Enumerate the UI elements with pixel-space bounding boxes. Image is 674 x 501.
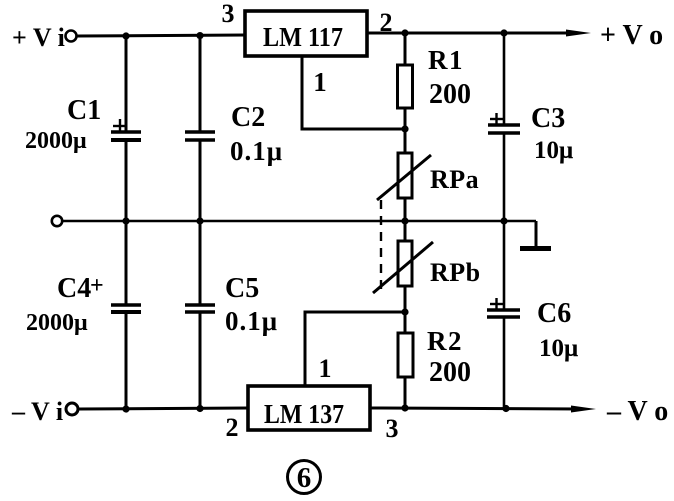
capacitor C3 bbox=[488, 125, 520, 133]
svg-text:LM 137: LM 137 bbox=[264, 399, 344, 429]
wire C6 top bbox=[503, 221, 506, 311]
svg-text:+: + bbox=[90, 273, 104, 299]
svg-text:C2: C2 bbox=[231, 102, 265, 133]
junction bottom rail R2 bbox=[401, 404, 408, 411]
ground lead bbox=[535, 221, 538, 247]
svg-text:200: 200 bbox=[429, 357, 471, 388]
resistor R1 bbox=[398, 65, 413, 108]
wire middle rail bbox=[62, 220, 536, 223]
wire R2 to bottom rail bbox=[404, 377, 407, 409]
svg-text:C4: C4 bbox=[57, 273, 91, 304]
svg-text:0.1μ: 0.1μ bbox=[225, 306, 278, 336]
C6 polarity plus bbox=[490, 298, 503, 311]
junction U1 adj node bbox=[401, 125, 408, 132]
input terminal -Vi bbox=[66, 403, 78, 415]
svg-text:6: 6 bbox=[297, 462, 312, 494]
wire C3 bottom bbox=[503, 133, 506, 221]
svg-text:C6: C6 bbox=[537, 298, 571, 329]
wire C1 bottom bbox=[125, 140, 128, 221]
arrow -Vo bbox=[571, 406, 596, 413]
junction middle rail C1/C4 bbox=[122, 217, 129, 224]
svg-text:– V o: – V o bbox=[606, 396, 668, 427]
arrow +Vo bbox=[566, 30, 591, 37]
wire C3 top bbox=[503, 33, 506, 126]
capacitor C4 bbox=[111, 305, 141, 312]
svg-text:RPb: RPb bbox=[430, 258, 481, 287]
C3 polarity plus bbox=[490, 113, 503, 126]
svg-text:200: 200 bbox=[429, 79, 471, 110]
wire U1 pin1 to adj node bbox=[302, 56, 405, 129]
C1 polarity plus bbox=[113, 119, 127, 133]
svg-text:C5: C5 bbox=[225, 273, 259, 304]
svg-text:R1: R1 bbox=[428, 45, 463, 75]
wire top rail right bbox=[367, 32, 578, 35]
wire C2 top bbox=[199, 36, 202, 133]
svg-text:10μ: 10μ bbox=[539, 335, 578, 362]
wire middle rail to RPb bbox=[404, 221, 407, 242]
wire C5 bottom bbox=[199, 312, 202, 409]
junction middle rail C2/C5 bbox=[196, 217, 203, 224]
junction top rail C1 bbox=[122, 32, 129, 39]
svg-text:C1: C1 bbox=[67, 95, 101, 126]
wire C4 top bbox=[125, 221, 128, 306]
gang link dashed line bbox=[380, 200, 382, 289]
capacitor C5 bbox=[185, 305, 215, 312]
junction bottom rail C5 bbox=[196, 405, 203, 412]
input terminal +Vi bbox=[66, 31, 77, 42]
wire R1 top bbox=[404, 33, 407, 66]
svg-text:3: 3 bbox=[386, 414, 399, 443]
svg-text:1: 1 bbox=[319, 354, 332, 383]
regulator U1 LM117 bbox=[245, 11, 367, 56]
wire RPa to middle rail bbox=[404, 198, 407, 222]
junction top rail C3 bbox=[500, 29, 507, 36]
junction top rail R1 bbox=[401, 29, 408, 36]
wire R1 to RPa bbox=[404, 108, 407, 154]
svg-text:3: 3 bbox=[222, 0, 235, 28]
figure number 6 bbox=[288, 461, 321, 495]
ground bbox=[520, 246, 551, 251]
wire C4 bottom bbox=[125, 312, 128, 409]
svg-text:C3: C3 bbox=[531, 103, 565, 134]
svg-text:2: 2 bbox=[226, 413, 239, 442]
svg-text:+ V o: + V o bbox=[600, 20, 663, 51]
svg-text:1: 1 bbox=[313, 67, 327, 97]
RPa wiper arrow bbox=[377, 155, 431, 200]
junction middle rail RP node bbox=[401, 217, 408, 224]
wire top rail left bbox=[77, 35, 246, 36]
junction bottom rail C4 bbox=[122, 405, 129, 412]
capacitor C2 bbox=[185, 132, 215, 140]
common terminal bbox=[52, 216, 62, 226]
wire RPb to R2 bbox=[404, 286, 407, 334]
junction U2 adj node bbox=[401, 308, 408, 315]
wire bottom rail left bbox=[79, 408, 249, 409]
wire U2 pin1 to adj node bbox=[305, 312, 405, 386]
potentiometer RPb bbox=[398, 241, 412, 286]
svg-text:– V i: – V i bbox=[11, 397, 63, 426]
capacitor C1 bbox=[111, 132, 141, 140]
svg-text:0.1μ: 0.1μ bbox=[230, 136, 283, 166]
svg-text:LM 117: LM 117 bbox=[263, 22, 343, 52]
junction top rail C2 bbox=[196, 32, 203, 39]
regulator U2 LM137 bbox=[248, 386, 370, 430]
svg-text:2000μ: 2000μ bbox=[26, 310, 88, 336]
svg-text:2000μ: 2000μ bbox=[25, 128, 87, 154]
capacitor C6 bbox=[487, 310, 520, 317]
svg-text:RPa: RPa bbox=[430, 165, 479, 194]
wire C2 bottom bbox=[199, 140, 202, 221]
resistor R2 bbox=[398, 333, 413, 377]
junction bottom rail C6 bbox=[502, 405, 509, 412]
wire C1 top bbox=[125, 36, 128, 133]
svg-text:10μ: 10μ bbox=[534, 137, 573, 164]
potentiometer RPa bbox=[398, 153, 412, 198]
wire C5 top bbox=[199, 221, 202, 306]
junction middle rail C3/C6 bbox=[500, 217, 507, 224]
RPb wiper arrow bbox=[373, 242, 433, 293]
wire bottom rail right bbox=[370, 408, 582, 409]
svg-text:R2: R2 bbox=[427, 326, 462, 356]
wire C6 bottom bbox=[503, 317, 506, 408]
svg-text:+ V i: + V i bbox=[12, 23, 65, 52]
